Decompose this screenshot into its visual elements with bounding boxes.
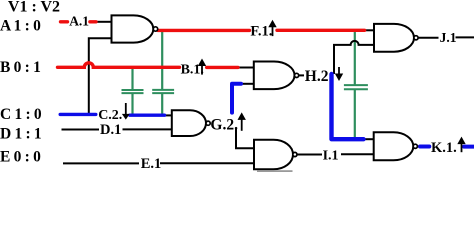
svg-text:K.1.: K.1. [431,140,457,156]
svg-text:C 1 : 0: C 1 : 0 [0,106,42,123]
svg-text:D.1: D.1 [100,122,121,138]
svg-text:E.1: E.1 [141,156,162,172]
svg-text:H.2: H.2 [305,68,329,85]
svg-text:I.1: I.1 [323,148,339,163]
svg-text:A.1: A.1 [69,13,89,28]
svg-text:C.2.: C.2. [98,108,122,123]
svg-text:B 0 : 1: B 0 : 1 [0,59,41,76]
svg-text:D 1 : 1: D 1 : 1 [0,125,41,142]
svg-text:E 0 : 0: E 0 : 0 [0,148,41,165]
svg-text:B.1.: B.1. [181,62,204,77]
svg-text:J.1: J.1 [440,30,457,45]
svg-text:V1 : V2: V1 : V2 [8,0,60,16]
svg-text:G.2.: G.2. [210,116,238,133]
svg-text:A 1 : 0: A 1 : 0 [0,17,41,34]
svg-text:F.1.: F.1. [250,23,272,39]
